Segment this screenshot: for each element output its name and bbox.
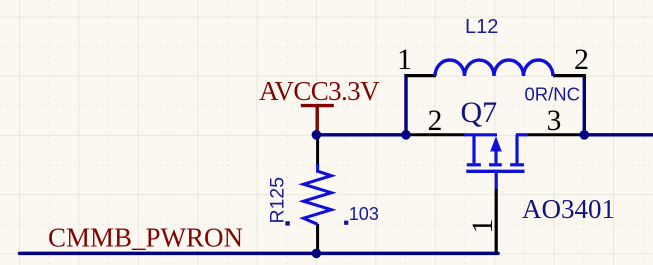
contact bar drain <box>510 163 524 166</box>
junction node B <box>401 130 411 140</box>
gate stub <box>495 171 498 190</box>
gate plate <box>466 170 524 173</box>
svg-text:CMMB_PWRON: CMMB_PWRON <box>48 223 243 253</box>
text origin dot for R125 <box>285 221 289 225</box>
body diode arrow <box>490 136 502 151</box>
source top bar <box>464 133 497 136</box>
resistor R125 body <box>304 164 332 224</box>
svg-text:3: 3 <box>547 105 562 137</box>
Q7 pin 2 wire (source, black) <box>406 133 465 136</box>
svg-text:103: 103 <box>349 204 379 224</box>
junction node A <box>312 130 322 140</box>
Q7 pin 3 wire (drain, black) <box>528 133 585 136</box>
svg-text:2: 2 <box>574 43 589 76</box>
junction node D (resistor to bottom rail) <box>312 249 322 259</box>
transistor Q7 body <box>464 135 528 190</box>
svg-text:AVCC3.3V: AVCC3.3V <box>259 76 380 106</box>
svg-text:1: 1 <box>397 43 412 76</box>
resistor R125 pin top <box>316 135 319 165</box>
svg-text:0R/NC: 0R/NC <box>525 84 581 105</box>
svg-text:R125: R125 <box>266 177 288 224</box>
body stem <box>494 150 497 163</box>
wire: top rail segment node A to node B <box>317 133 407 136</box>
wire: node C to right edge <box>584 133 653 136</box>
contact bar body <box>489 163 502 166</box>
text origin dot for 103 <box>344 221 348 225</box>
wire: vertical node B to inductor pin 1 <box>404 74 407 135</box>
wire: bottom rail CMMB_PWRON net <box>20 252 499 256</box>
svg-text:AO3401: AO3401 <box>522 194 615 224</box>
source stub <box>472 135 475 164</box>
resistor R125 pin bottom <box>316 224 319 253</box>
inductor L12 pin 1 lead <box>405 74 436 77</box>
power port AVCC3.3V bar <box>301 106 334 134</box>
svg-text:Q7: Q7 <box>461 96 498 129</box>
svg-text:L12: L12 <box>465 16 498 38</box>
wire: vertical node C to inductor pin 2 <box>583 74 586 135</box>
Q7 gate pin (black) <box>495 189 498 254</box>
svg-text:1: 1 <box>466 219 499 234</box>
drain top bar <box>516 133 528 136</box>
svg-text:2: 2 <box>428 105 443 137</box>
inductor L12 pin 2 lead <box>553 74 586 77</box>
contact bar source <box>467 163 481 166</box>
junction node C <box>580 130 590 140</box>
inductor L12 body <box>435 60 553 76</box>
drain stub <box>515 135 518 164</box>
